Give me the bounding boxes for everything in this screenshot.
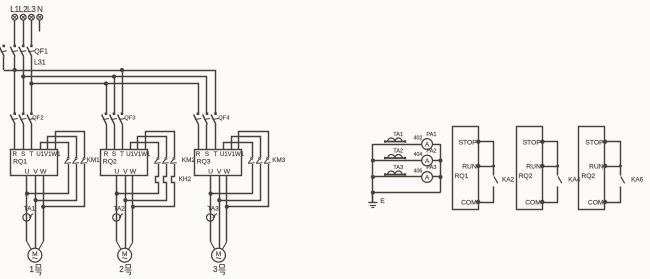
svg-text:RQ2: RQ2 bbox=[519, 173, 533, 180]
label PA1 bbox=[426, 132, 436, 138]
svg-text:PA2: PA2 bbox=[426, 149, 436, 155]
svg-text:T: T bbox=[30, 151, 34, 158]
wire U1 loop to KM1 pole1 bbox=[41, 143, 69, 158]
svg-text:W: W bbox=[130, 169, 137, 176]
wire KM1 pole1 bypass join bbox=[25, 164, 69, 196]
node labels L1 L2 L3 N bbox=[10, 5, 43, 14]
svg-text:RUN: RUN bbox=[526, 164, 541, 171]
terminal STOP bbox=[476, 140, 480, 144]
wire metering rail 1 bbox=[373, 144, 441, 146]
svg-text:L31: L31 bbox=[34, 59, 46, 66]
bus L1 (top) bbox=[4, 68, 216, 113]
wire metering rail 3 bbox=[373, 176, 441, 178]
wire U output unit 3 bbox=[211, 175, 215, 249]
wire L1 drop bbox=[14, 20, 16, 44]
label 1hao (motor 1 name) bbox=[29, 265, 41, 275]
svg-text:TA1: TA1 bbox=[393, 132, 403, 138]
net label L31 bbox=[34, 59, 46, 66]
wire metering bottom return bbox=[373, 192, 441, 194]
wire KM3 pole3 bypass join bbox=[225, 164, 269, 209]
label TA2 bbox=[114, 206, 126, 213]
current transformer TA1 bbox=[23, 214, 34, 221]
svg-text:KA6: KA6 bbox=[631, 176, 644, 183]
svg-text:R: R bbox=[196, 151, 201, 158]
wire L2 drop bbox=[23, 20, 25, 44]
svg-text:TA1: TA1 bbox=[24, 206, 36, 213]
svg-text:TA2: TA2 bbox=[114, 206, 126, 213]
svg-text:STOP: STOP bbox=[523, 139, 542, 146]
svg-text:RQ1: RQ1 bbox=[455, 173, 469, 180]
svg-text:KM3: KM3 bbox=[272, 157, 286, 164]
wire KM3 pole2 bypass join bbox=[217, 164, 260, 202]
terminal COM bbox=[603, 200, 607, 204]
terminal N bbox=[37, 14, 43, 20]
wire metering rail 2 bbox=[373, 160, 441, 162]
circuit breaker QF4 bbox=[194, 112, 219, 124]
wire KM1 pole2 bypass join bbox=[34, 164, 77, 202]
circuit breaker QF1 bbox=[10, 45, 34, 57]
wire KM3 pole1 bypass join bbox=[209, 164, 253, 196]
wire W1 loop to KM2 pole3 bbox=[146, 132, 175, 158]
current transformer TA3 bbox=[207, 214, 218, 221]
label KA2 bbox=[502, 176, 515, 183]
svg-text:N: N bbox=[37, 5, 43, 14]
svg-text:E: E bbox=[380, 198, 385, 205]
current transformer TA3 (metering) bbox=[384, 171, 406, 176]
motor M3 bbox=[212, 248, 226, 262]
svg-text:2: 2 bbox=[119, 265, 124, 274]
current transformer TA2 bbox=[113, 214, 123, 221]
svg-text:T: T bbox=[214, 151, 218, 158]
label thermal overload KH2 bbox=[179, 176, 192, 183]
svg-text:KM2: KM2 bbox=[182, 157, 196, 164]
svg-text:RUN: RUN bbox=[462, 164, 477, 171]
ammeter PA1 bbox=[422, 139, 433, 150]
svg-text:RUN: RUN bbox=[589, 164, 604, 171]
inverter RQ3 (unit 3) bbox=[195, 150, 245, 176]
svg-text:A: A bbox=[425, 142, 430, 149]
wires QF4 to inverter RQ3 R S T bbox=[199, 124, 216, 149]
terminal RUN bbox=[540, 164, 544, 168]
wire L3 drop bbox=[31, 20, 33, 44]
svg-text:RQ2: RQ2 bbox=[103, 159, 117, 166]
svg-text:RQ3: RQ3 bbox=[197, 159, 211, 166]
wire W output unit 2 bbox=[128, 175, 133, 249]
contactor KM1 bbox=[64, 157, 87, 163]
wire bus L2 tap to QF3 pole2 bbox=[114, 77, 116, 113]
current transformer TA2 (metering) bbox=[384, 154, 406, 159]
label KA4 bbox=[568, 176, 581, 183]
svg-text:S: S bbox=[112, 151, 116, 158]
wire bus L1 tap to QF3 pole3 bbox=[122, 70, 124, 112]
svg-text:M: M bbox=[32, 251, 38, 258]
svg-text:S: S bbox=[205, 151, 209, 158]
wire L1 to bus bbox=[14, 57, 16, 70]
wire V output unit 1 bbox=[35, 175, 37, 248]
terminal STOP bbox=[603, 140, 607, 144]
circuit breaker QF2 bbox=[10, 112, 34, 124]
svg-text:COM: COM bbox=[588, 200, 604, 207]
wire U1 loop to KM3 pole1 bbox=[224, 143, 253, 158]
contactor KM3 bbox=[248, 157, 271, 163]
motor M2 bbox=[118, 248, 132, 262]
net label 402 bbox=[414, 135, 423, 141]
wire RUN junction bbox=[605, 165, 622, 168]
wire U1 loop to KM2 pole1 bbox=[131, 143, 159, 158]
svg-text:TA3: TA3 bbox=[393, 165, 403, 171]
wire U output unit 1 bbox=[27, 175, 32, 249]
label PA3 bbox=[426, 165, 436, 171]
svg-text:KM1: KM1 bbox=[87, 157, 101, 164]
svg-text:U1V1W1: U1V1W1 bbox=[220, 152, 245, 158]
label TA1 bbox=[24, 206, 36, 213]
circuit breaker QF3 bbox=[102, 112, 126, 124]
wire L2 to bus bbox=[23, 57, 25, 77]
svg-text:STOP: STOP bbox=[585, 139, 604, 146]
svg-text:404: 404 bbox=[414, 152, 423, 158]
svg-text:PA3: PA3 bbox=[426, 165, 436, 171]
wire W output unit 3 bbox=[222, 175, 227, 249]
label 2hao (motor 2 name) bbox=[119, 265, 131, 275]
wires QF3 to inverter RQ2 R S T bbox=[107, 124, 123, 149]
wire W1 loop to KM1 pole3 bbox=[56, 132, 85, 158]
label KM1 bbox=[87, 157, 101, 164]
svg-text:KH2: KH2 bbox=[179, 176, 192, 183]
svg-text:V: V bbox=[217, 169, 222, 176]
terminal COM bbox=[476, 200, 480, 204]
svg-text:PA1: PA1 bbox=[426, 132, 436, 138]
svg-text:W: W bbox=[40, 169, 47, 176]
current transformer TA1 (metering) bbox=[384, 138, 406, 143]
wire metering right bus bbox=[438, 144, 442, 193]
svg-text:M: M bbox=[122, 251, 128, 258]
label QF3 bbox=[124, 115, 135, 121]
net label 404 bbox=[414, 152, 423, 158]
wire V1 loop to KM2 pole2 bbox=[138, 137, 167, 158]
label TA3 bbox=[393, 165, 403, 171]
contactor KM2 bbox=[154, 157, 177, 163]
bus L3 (bottom) bbox=[29, 82, 198, 114]
label PA2 bbox=[426, 149, 436, 155]
svg-text:A: A bbox=[425, 175, 430, 182]
ammeter PA2 bbox=[422, 155, 433, 166]
bus L2 (middle) bbox=[21, 75, 206, 114]
ammeter PA3 bbox=[422, 172, 433, 183]
wire KM2 pole3 bypass join bbox=[131, 164, 175, 209]
wire RUN junction bbox=[478, 165, 495, 168]
svg-text:RQ1: RQ1 bbox=[13, 159, 27, 166]
terminal L3 bbox=[29, 14, 35, 20]
wire RUN junction bbox=[542, 165, 559, 168]
svg-text:U1V1W1: U1V1W1 bbox=[36, 152, 61, 158]
svg-text:COM: COM bbox=[461, 200, 477, 207]
label QF4 bbox=[218, 115, 230, 121]
terminal STOP bbox=[540, 140, 544, 144]
terminal L2 bbox=[20, 14, 26, 20]
svg-text:U: U bbox=[208, 169, 213, 176]
relay contact KA4 bbox=[542, 176, 562, 202]
wire U output unit 2 bbox=[117, 175, 122, 249]
svg-text:3: 3 bbox=[213, 265, 218, 274]
terminal L1 bbox=[12, 14, 18, 20]
svg-text:T: T bbox=[120, 151, 124, 158]
wire metering left bus bbox=[371, 144, 375, 202]
label KM2 bbox=[182, 157, 196, 164]
wire N stub bbox=[39, 20, 41, 31]
inverter RQ1 (unit 1) bbox=[11, 150, 62, 176]
wire bus L2 to QF2 pole2 bbox=[23, 77, 25, 113]
control terminals of inverter RQ2 bbox=[579, 127, 605, 210]
svg-text:COM: COM bbox=[525, 200, 541, 207]
wire KM1 pole3 bypass join bbox=[41, 164, 84, 209]
relay contact KA2 bbox=[478, 176, 498, 202]
svg-text:402: 402 bbox=[414, 135, 423, 141]
net label 406 bbox=[414, 168, 423, 174]
svg-text:STOP: STOP bbox=[459, 139, 478, 146]
svg-text:RQ2: RQ2 bbox=[581, 173, 595, 180]
svg-text:V: V bbox=[123, 169, 128, 176]
wire W output unit 1 bbox=[39, 175, 44, 249]
terminal COM bbox=[540, 200, 544, 204]
label TA3 bbox=[207, 206, 219, 213]
svg-text:TA3: TA3 bbox=[207, 206, 219, 213]
wire KM2 pole1 bypass join bbox=[115, 164, 159, 196]
wire bus L1 to QF2 pole1 bbox=[14, 70, 16, 112]
svg-text:QF3: QF3 bbox=[124, 115, 135, 121]
inverter RQ2 (unit 2) bbox=[101, 150, 151, 176]
wire STOP to contact bbox=[478, 142, 493, 176]
terminal RUN bbox=[603, 164, 607, 168]
svg-text:M: M bbox=[216, 251, 222, 258]
ground E bbox=[368, 193, 377, 208]
wire V output unit 2 bbox=[125, 175, 127, 248]
svg-text:L3: L3 bbox=[27, 5, 36, 14]
label TA1 bbox=[393, 132, 403, 138]
label QF2 bbox=[32, 115, 43, 121]
label KM3 bbox=[272, 157, 286, 164]
wire STOP to contact bbox=[542, 142, 557, 176]
wire bus L3 tap to QF3 pole1 bbox=[106, 84, 108, 113]
svg-text:R: R bbox=[104, 151, 109, 158]
motor M1 bbox=[28, 248, 42, 262]
wire V output unit 3 bbox=[219, 175, 221, 248]
svg-text:U: U bbox=[114, 169, 119, 176]
partial breaker pole (cropped at left edge) bbox=[0, 45, 7, 70]
wire V1 loop to KM3 pole2 bbox=[232, 137, 261, 158]
relay contact KA6 bbox=[605, 176, 625, 202]
svg-text:W: W bbox=[224, 169, 231, 176]
svg-text:A: A bbox=[425, 158, 430, 165]
svg-text:U1V1W1: U1V1W1 bbox=[126, 152, 151, 158]
svg-text:U: U bbox=[25, 169, 30, 176]
svg-text:QF2: QF2 bbox=[32, 115, 43, 121]
svg-text:QF1: QF1 bbox=[34, 48, 48, 55]
control terminals of inverter RQ2 bbox=[517, 127, 543, 210]
svg-text:S: S bbox=[21, 151, 25, 158]
label E bbox=[380, 198, 385, 205]
wire KM2 pole2 bypass join bbox=[123, 164, 166, 202]
terminal RUN bbox=[476, 164, 480, 168]
control terminals of inverter RQ1 bbox=[453, 127, 479, 210]
svg-text:406: 406 bbox=[414, 168, 423, 174]
wire V1 loop to KM1 pole2 bbox=[48, 137, 77, 158]
svg-text:QF4: QF4 bbox=[218, 115, 230, 121]
label 3hao (motor 3 name) bbox=[213, 265, 225, 275]
svg-text:KA2: KA2 bbox=[502, 176, 515, 183]
svg-text:R: R bbox=[12, 151, 17, 158]
wire L3 to bus bbox=[31, 57, 33, 84]
svg-text:TA2: TA2 bbox=[393, 148, 403, 154]
svg-text:V: V bbox=[33, 169, 38, 176]
wire bus L3 to QF2 pole3 bbox=[31, 84, 33, 113]
label KA6 bbox=[631, 176, 644, 183]
svg-text:1: 1 bbox=[29, 265, 34, 274]
wire STOP to contact bbox=[605, 142, 620, 176]
label TA2 bbox=[393, 148, 403, 154]
label QF1 bbox=[34, 48, 48, 55]
wire W1 loop to KM3 pole3 bbox=[239, 132, 269, 158]
wires QF2 to inverter RQ1 R S T bbox=[15, 124, 32, 149]
